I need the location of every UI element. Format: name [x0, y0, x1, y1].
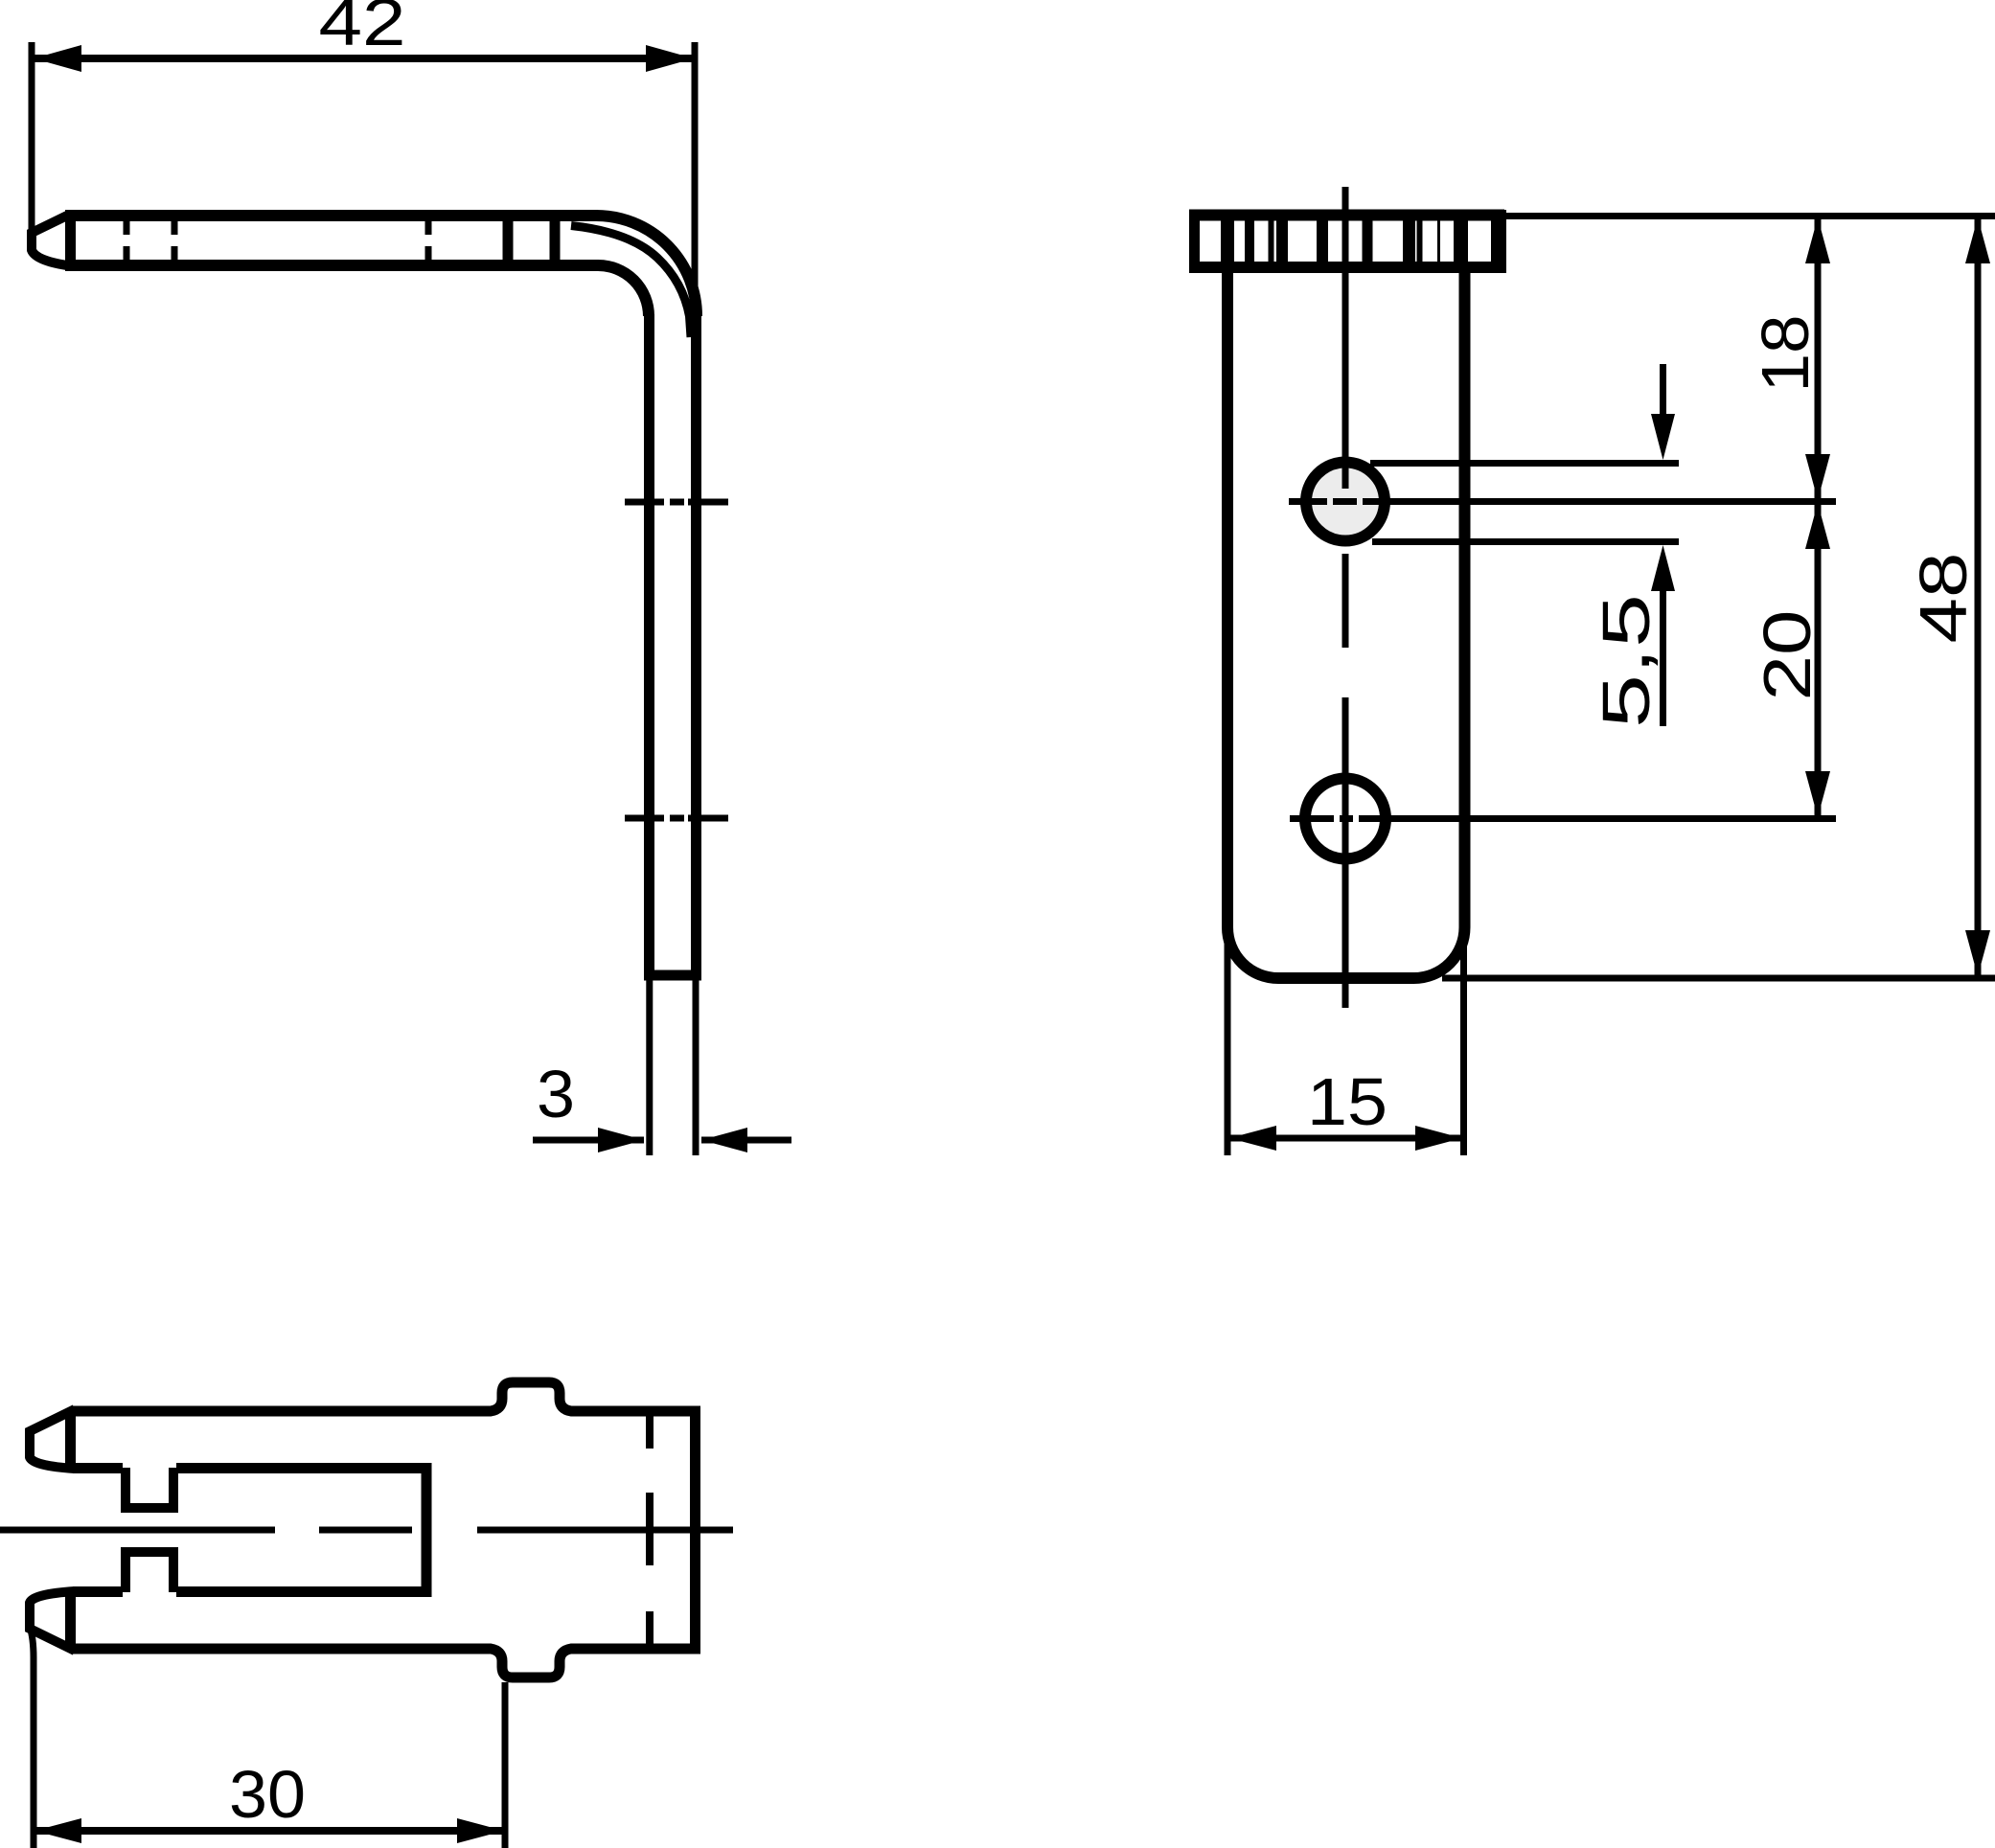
knurled bar left wall	[1189, 210, 1200, 273]
dimension 20 bottom arrowhead	[1805, 771, 1830, 817]
upper prong bottom edge left part	[73, 1463, 123, 1473]
bar left tip outline	[32, 216, 67, 265]
dimension 5,5 upper arrowhead	[1651, 414, 1675, 460]
lower prong tip boundary	[65, 1592, 76, 1650]
dimension 15 left extension line	[1225, 931, 1231, 1155]
upper prong nose	[30, 1409, 75, 1469]
leg hole centerline mark 2	[625, 815, 728, 822]
dimension 48 bottom extension line	[1442, 975, 1995, 982]
dimension 42 right extension line	[692, 42, 699, 299]
view centerline	[0, 1527, 733, 1534]
dimension 42 left extension line	[29, 42, 35, 230]
dimension 30 left extension line	[30, 1627, 34, 1848]
dimension 15 line	[1227, 1135, 1463, 1142]
knurl band 6	[1363, 220, 1373, 262]
dimension 15 left arrowhead	[1229, 1126, 1276, 1151]
hole 1 top tangent line	[1370, 460, 1679, 467]
dimension 42 left arrowhead	[34, 45, 81, 72]
dimension 3 left extension line	[646, 980, 653, 1155]
dimension 48 line	[1975, 216, 1982, 978]
bend outer curve	[596, 216, 697, 316]
svg-text:5,5: 5,5	[1589, 594, 1663, 728]
leg bottom cap	[644, 970, 701, 981]
plate bottom edge	[1278, 972, 1414, 984]
bar tick 2 bottom dash	[172, 246, 178, 260]
knurl band 2	[1245, 220, 1254, 262]
dimension 18 top arrowhead	[1805, 217, 1830, 263]
bend inner curve	[598, 265, 649, 316]
leg right edge	[691, 314, 701, 975]
upper tab	[479, 1382, 585, 1411]
bend parallel curve	[571, 226, 691, 338]
dimension 48 top extension line	[1501, 213, 1995, 219]
hole 1 (filled)	[1306, 463, 1385, 541]
dimension 48 bottom arrowhead	[1965, 930, 1990, 976]
bar tick 2 top dash	[172, 221, 178, 235]
plate right edge	[1459, 267, 1471, 927]
knurl band 5	[1317, 220, 1328, 262]
vertical centerline segment 1	[1342, 187, 1349, 489]
svg-text:18: 18	[1748, 315, 1823, 393]
dimension 15 right arrowhead	[1415, 1126, 1462, 1151]
bar tick 3 bottom dash	[425, 246, 432, 260]
hole 2	[1305, 779, 1386, 859]
dimension 30 right arrowhead	[457, 1818, 504, 1843]
plate bottom right corner	[1414, 927, 1465, 978]
slot end cap	[422, 1463, 432, 1597]
lower prong bottom edge	[73, 1644, 484, 1654]
dimension 5,5 lower arrowhead	[1651, 545, 1675, 591]
upper prong tip boundary	[65, 1410, 76, 1468]
bar tick 3 top dash	[425, 221, 432, 235]
slot top edge	[176, 1463, 429, 1473]
dimension 3 left arrowhead	[598, 1128, 644, 1152]
dimension 3 line left part	[533, 1137, 644, 1144]
knurl band 4	[1276, 220, 1288, 262]
svg-text:15: 15	[1307, 1064, 1387, 1139]
dimension 48 top arrowhead	[1965, 217, 1990, 263]
bar top edge	[65, 210, 598, 221]
plate left edge	[1222, 267, 1233, 927]
dimension 42 right arrowhead	[646, 45, 694, 72]
leg hole centerline mark 1	[625, 499, 728, 506]
dimension 18/20 line	[1815, 216, 1822, 818]
bar zone line 1	[503, 219, 514, 262]
arm top edge right part	[580, 1406, 700, 1417]
knurled bar right wall	[1491, 210, 1506, 273]
dimension 30 line	[34, 1827, 505, 1835]
upper prong top edge	[73, 1406, 484, 1417]
bar tick 1 top dash	[124, 221, 130, 235]
plate bottom left corner	[1227, 927, 1278, 978]
bar tip boundary line	[65, 215, 76, 266]
dimension 5,5 upper arrow line	[1660, 364, 1666, 416]
knurl band 1	[1221, 220, 1234, 262]
upper tooth	[126, 1468, 173, 1508]
svg-text:20: 20	[1750, 610, 1824, 701]
dimension 3 right extension line	[693, 980, 699, 1155]
dimension 5,5 lower arrow line	[1660, 589, 1666, 726]
vertical centerline segment 3	[1342, 697, 1349, 1008]
arm bottom edge right part	[580, 1644, 700, 1654]
hole 1 bottom tangent line	[1372, 538, 1679, 545]
bar tick 1 bottom dash	[124, 246, 130, 260]
knurled bar top edge	[1189, 210, 1504, 221]
vertical centerline segment 2	[1342, 554, 1349, 648]
hole 1 horizontal centerline	[1289, 498, 1836, 505]
lower prong nose	[30, 1591, 75, 1651]
bar bottom edge	[65, 260, 598, 271]
svg-text:42: 42	[319, 0, 406, 59]
dimension 42 line	[34, 55, 694, 62]
dimension 20 top arrowhead	[1805, 503, 1830, 549]
dimension 3 right arrowhead	[701, 1128, 747, 1152]
dimension 18 bottom arrowhead	[1805, 454, 1830, 500]
knurl band 3 thin	[1269, 220, 1274, 262]
hidden bend line	[646, 1416, 654, 1644]
arm right edge	[690, 1406, 700, 1654]
slot bottom edge	[176, 1586, 429, 1597]
svg-text:3: 3	[537, 1057, 575, 1131]
dimension 3 line right part	[701, 1137, 791, 1144]
dimension 15 right extension line	[1460, 931, 1467, 1155]
lower tooth	[126, 1552, 173, 1592]
lower tab	[479, 1649, 585, 1677]
lower prong top edge left part	[73, 1586, 123, 1597]
leg left edge	[644, 314, 654, 975]
knurl band 9 thin	[1437, 220, 1440, 262]
knurled bar bottom edge	[1189, 262, 1504, 273]
dimension 30 left arrowhead	[34, 1818, 81, 1843]
knurl band 8 thin	[1417, 220, 1423, 262]
svg-text:48: 48	[1906, 553, 1981, 644]
knurl band 7	[1403, 220, 1415, 262]
dimension 30 right extension line	[502, 1682, 509, 1848]
hole 2 horizontal centerline	[1290, 815, 1836, 822]
svg-text:30: 30	[229, 1757, 306, 1832]
knurl band 10	[1454, 220, 1468, 262]
bar zone line 2	[550, 219, 561, 262]
